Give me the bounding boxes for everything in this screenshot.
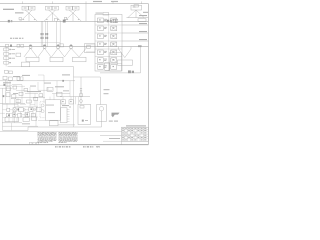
device box above bus (64, 17, 66, 19)
tap1 dark top (30, 45, 32, 46)
zone tick top 5 (141, 1, 143, 3)
device box on wire D (59, 44, 63, 47)
text smudge s2 (13, 92, 18, 95)
instrument column box 4 (4, 61, 9, 64)
lineup col1 text dashes (104, 19, 107, 68)
T1 arrowheads (23, 18, 36, 21)
dark relay blob (10, 45, 12, 47)
pt device box (19, 18, 22, 20)
wire into title block (100, 135, 122, 137)
transformer bank T1 box a (22, 6, 28, 10)
dot near M1 feed (69, 106, 70, 107)
breaker CB2 blob (11, 20, 13, 22)
title text top-right (111, 1, 118, 2)
meter box row on bus2 (6, 44, 9, 47)
M2 drop wire (101, 111, 103, 127)
small boxes right of cluster (17, 77, 20, 80)
title block sub line (103, 140, 148, 142)
switchgear lineup outline (95, 14, 122, 71)
box mid1 (47, 87, 53, 91)
wire 90 (38, 89, 52, 91)
T1 drop diagonals (21, 10, 38, 21)
T3 drop diagonals (65, 10, 82, 21)
T2 arrowheads (46, 18, 59, 21)
LV tap box 2 (43, 45, 46, 48)
left cluster dark dot (3, 84, 5, 86)
title block columns (125, 127, 144, 141)
wire 93.5 (52, 93, 70, 95)
LV tap box 4 (70, 45, 73, 48)
zone tick top 2 (52, 1, 54, 3)
tap3 dark top (57, 45, 59, 46)
LV tap box 1 (29, 45, 32, 48)
motor M2 circle (99, 107, 103, 111)
text smudge s7 (63, 89, 69, 92)
contacts A upper (41, 33, 42, 35)
motor M2 rect (97, 105, 107, 122)
revision table text (109, 137, 120, 140)
contacts B lower (45, 37, 46, 39)
long mid wire (8, 66, 74, 68)
disconnect pair wires B (46, 21, 48, 46)
bus 1 (0, 20, 148, 22)
vertical x44 (38, 75, 44, 103)
wire p (20, 116, 38, 118)
vertical stub g (48, 87, 54, 99)
feeder line F1 (122, 24, 148, 26)
wire 107 (25, 106, 38, 108)
box j (16, 100, 21, 103)
contacts A lower (41, 37, 42, 39)
starter rect M1 (78, 104, 91, 124)
vertical x70 (69, 81, 71, 97)
dark dot g (3, 95, 5, 97)
wire 88 (0, 87, 12, 89)
feeder line F2 (122, 32, 148, 34)
lineup bottom sub-box (110, 52, 121, 71)
title block outline (122, 127, 149, 141)
wire v (60, 96, 90, 98)
text smudge s5 (48, 111, 55, 114)
dark dot d2 (31, 108, 33, 110)
annex inner mark (87, 46, 91, 49)
bus 2 (0, 46, 148, 48)
tie wire D (59, 21, 61, 46)
feeder line F3 (122, 40, 148, 42)
meter boxes (17, 44, 20, 47)
left cluster box b0 (9, 71, 12, 74)
label F1 (139, 23, 147, 24)
text smudge s1 (44, 82, 51, 85)
tap3 diagonals (52, 48, 65, 57)
wire stub a (16, 90, 28, 92)
lineup top text (96, 12, 103, 15)
LV xfmr rect 2 (50, 57, 63, 62)
tiny box m3 (34, 97, 38, 100)
cluster boxes o (23, 118, 29, 122)
instrument column box 3 (4, 57, 9, 60)
dark dot d4 (13, 114, 15, 116)
text smudge s3 (30, 85, 36, 88)
lineup col2 X marks (111, 19, 115, 62)
vertical x18 (17, 98, 19, 111)
label F3 (139, 39, 147, 40)
dark dot d5 (26, 114, 28, 116)
grey stamp (112, 113, 120, 118)
sheet right border (147, 4, 149, 145)
lineup cross wires (95, 25, 122, 64)
contacts B upper (45, 33, 46, 35)
tap1 diagonals (24, 48, 37, 57)
drop wire with ticks (80, 77, 82, 104)
right xfmr rect (118, 60, 133, 65)
vertical r (11, 123, 13, 131)
aux box 2 (22, 62, 30, 67)
label right F0 (139, 15, 147, 16)
transformer bank T2 box b (52, 6, 58, 10)
M1 inner marks (80, 106, 84, 109)
wire i (12, 97, 45, 99)
relay coil long rect (5, 118, 19, 122)
lineup bottom extra cells (105, 63, 109, 71)
note text small left (3, 82, 11, 83)
text above wire (62, 74, 70, 75)
wire m (3, 109, 37, 111)
bus2 arrow mark (138, 45, 142, 47)
left cluster box b (8, 77, 12, 80)
vertical x37 (36, 100, 38, 111)
LV tap box 3 (57, 45, 60, 48)
title text above (126, 125, 146, 126)
title cells text (122, 128, 146, 140)
vertical x57 (56, 81, 58, 97)
dashed device with circles (40, 102, 45, 118)
wire stub c (10, 113, 25, 114)
bottom long wire (28, 126, 102, 128)
left cluster box c (6, 87, 10, 91)
T4 drop diagonals (128, 10, 144, 18)
text tl cluster (13, 76, 20, 77)
vertical x73.5 long (73, 77, 75, 127)
transformer bank T4 outline (131, 5, 142, 10)
wire n (2, 122, 22, 124)
transformer bank T2 box a (46, 6, 52, 10)
tie wire C (56, 21, 58, 46)
lineup annex box (85, 44, 96, 53)
lineup col1 cells (98, 18, 104, 23)
notes text column 1 (38, 131, 57, 133)
control boxes l (29, 107, 33, 111)
vertical stub f (7, 99, 33, 117)
lineup cell dots (99, 19, 113, 67)
label F2 (139, 31, 147, 32)
breaker CB3 blob (63, 20, 66, 23)
mid wire step down (74, 67, 101, 77)
LV xfmr rect 3 (73, 57, 87, 62)
verticals w (63, 97, 79, 105)
small row boxes y113 (6, 113, 10, 116)
right V diagonals (119, 49, 132, 58)
instrument column box 1 (4, 48, 9, 51)
wire 84.5 (12, 84, 22, 86)
note text TL (3, 9, 14, 10)
dark dot d1 (18, 109, 20, 111)
text row mid (27, 91, 41, 92)
dark dot d3 (8, 114, 10, 116)
extra verticals (15, 112, 26, 123)
bottom cluster wire (100, 72, 141, 74)
wire h (0, 102, 25, 104)
X mark in box (13, 108, 16, 112)
extra mesh wires bottom-left (0, 84, 12, 86)
tap4 dark top (70, 45, 72, 46)
legend marks (30, 142, 39, 144)
comb pins (67, 109, 70, 121)
instrument side text (11, 48, 15, 51)
M1 bottom specks (82, 120, 84, 122)
feeder line F0 (127, 17, 149, 19)
lineup left stub wires (86, 45, 95, 52)
breaker CB4 blob (107, 20, 109, 23)
wire 93 (25, 92, 38, 94)
instrument column box 2 (4, 52, 9, 55)
text smudge s4 (46, 104, 54, 107)
breaker CB1 blob (8, 20, 10, 23)
fuse boxes pair (113, 19, 115, 22)
tap2 dark top (44, 45, 46, 46)
small boxes upper area u (61, 100, 66, 104)
vertical riser at cluster left (85, 4, 87, 22)
right V feeder drops (119, 47, 132, 49)
extra wires zone k (3, 105, 26, 107)
tiny box m1 (13, 86, 17, 89)
dots in boxes u (62, 101, 63, 102)
lineup top cap box (103, 12, 109, 15)
text x (62, 105, 69, 106)
note text mid-left (10, 37, 24, 39)
faint cross wire y42.6 (0, 42, 60, 44)
footer marks (55, 146, 100, 148)
tick marks on drop (80, 88, 82, 92)
comb box (61, 108, 68, 123)
instrument wire (5, 47, 7, 67)
T box inner dashes (24, 7, 136, 9)
title block left edge extension (121, 141, 123, 144)
box j2 (27, 100, 32, 103)
verticals mid (30, 93, 35, 106)
left cluster box a (3, 76, 7, 80)
relay box f (12, 95, 16, 99)
instrument side dots (9, 49, 10, 64)
drop to motor M2 (99, 77, 101, 104)
dark boxes on bottom wire (128, 70, 131, 73)
tap4 diagonals (65, 47, 87, 57)
title text top-center (93, 1, 102, 2)
left cluster box a0 (5, 70, 9, 73)
zone tick top 4 (112, 1, 114, 3)
transformer bank T3 box b (73, 6, 79, 10)
wire stub e (20, 103, 35, 106)
relay box e (6, 93, 10, 97)
label right margin (143, 12, 148, 13)
bottom left wire s (3, 127, 29, 130)
pt drop wire (19, 20, 21, 22)
text above title block (109, 121, 113, 122)
left horizontal wire 81 (0, 80, 25, 82)
transformer bank T1 box b (29, 6, 35, 10)
sheet top border (0, 3, 148, 5)
T2 drop diagonals (44, 10, 61, 21)
notes text column 2 (59, 131, 78, 133)
box under (50, 121, 59, 126)
tiny box m2 (19, 92, 23, 95)
wire bottom band (0, 130, 122, 132)
tiny box m4 (39, 94, 43, 97)
sheet bottom border (0, 144, 148, 146)
lineup col2 cells (111, 18, 117, 23)
text mid (55, 86, 64, 87)
row of control boxes k (7, 108, 10, 111)
LV xfmr rect 1 (26, 57, 39, 62)
tiny circles zone k (23, 109, 25, 111)
zone tick top 3 (85, 1, 87, 3)
wire q (3, 125, 39, 127)
relay coil ticks (9, 118, 17, 122)
title block rows (122, 130, 149, 139)
vertical x36 (35, 112, 37, 126)
extra mesh wires 2 (12, 82, 38, 93)
label box right on bus (138, 19, 146, 22)
note text L2 (15, 12, 24, 13)
extra wire y113 (0, 112, 5, 114)
contact box on drop (80, 94, 83, 97)
left vertical long (2, 88, 4, 130)
transformer bank T3 box a (66, 6, 72, 10)
device box on bus (54, 19, 57, 22)
wire stub b (3, 116, 7, 118)
T4 inner box (134, 5, 139, 7)
tiny box m5 (24, 88, 28, 91)
box mid2 (57, 92, 63, 96)
text smudge s6 (22, 122, 30, 125)
zone tick top 1 (22, 1, 24, 3)
wire t (58, 124, 75, 126)
tick on wire 80.8 (62, 80, 64, 82)
big empty rect (45, 100, 60, 120)
left drop wires (6, 80, 11, 103)
vertical x22 (21, 85, 23, 104)
starter circle on drop (80, 100, 83, 103)
right drop wire (140, 47, 142, 73)
tap2 diagonals (38, 48, 51, 57)
wire 80.8 right part (25, 80, 75, 82)
breaker CB5 blob (110, 20, 112, 23)
aux box (16, 53, 21, 56)
wire stub d (38, 120, 45, 122)
disconnect pair wires A (41, 21, 43, 46)
T3 arrowheads (67, 18, 80, 21)
lineup center divider (108, 14, 110, 71)
text near drop (104, 89, 110, 90)
